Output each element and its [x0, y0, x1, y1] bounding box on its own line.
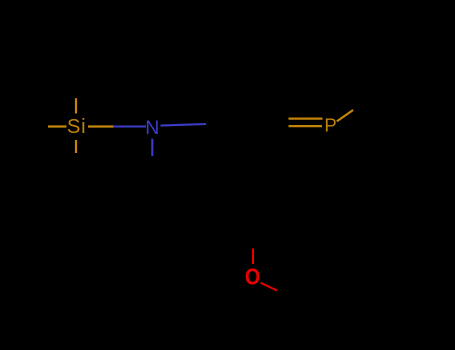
svg-text:Si: Si [67, 116, 86, 138]
svg-text:O: O [245, 263, 260, 290]
svg-text:P: P [324, 115, 336, 136]
svg-text:N: N [145, 117, 159, 139]
